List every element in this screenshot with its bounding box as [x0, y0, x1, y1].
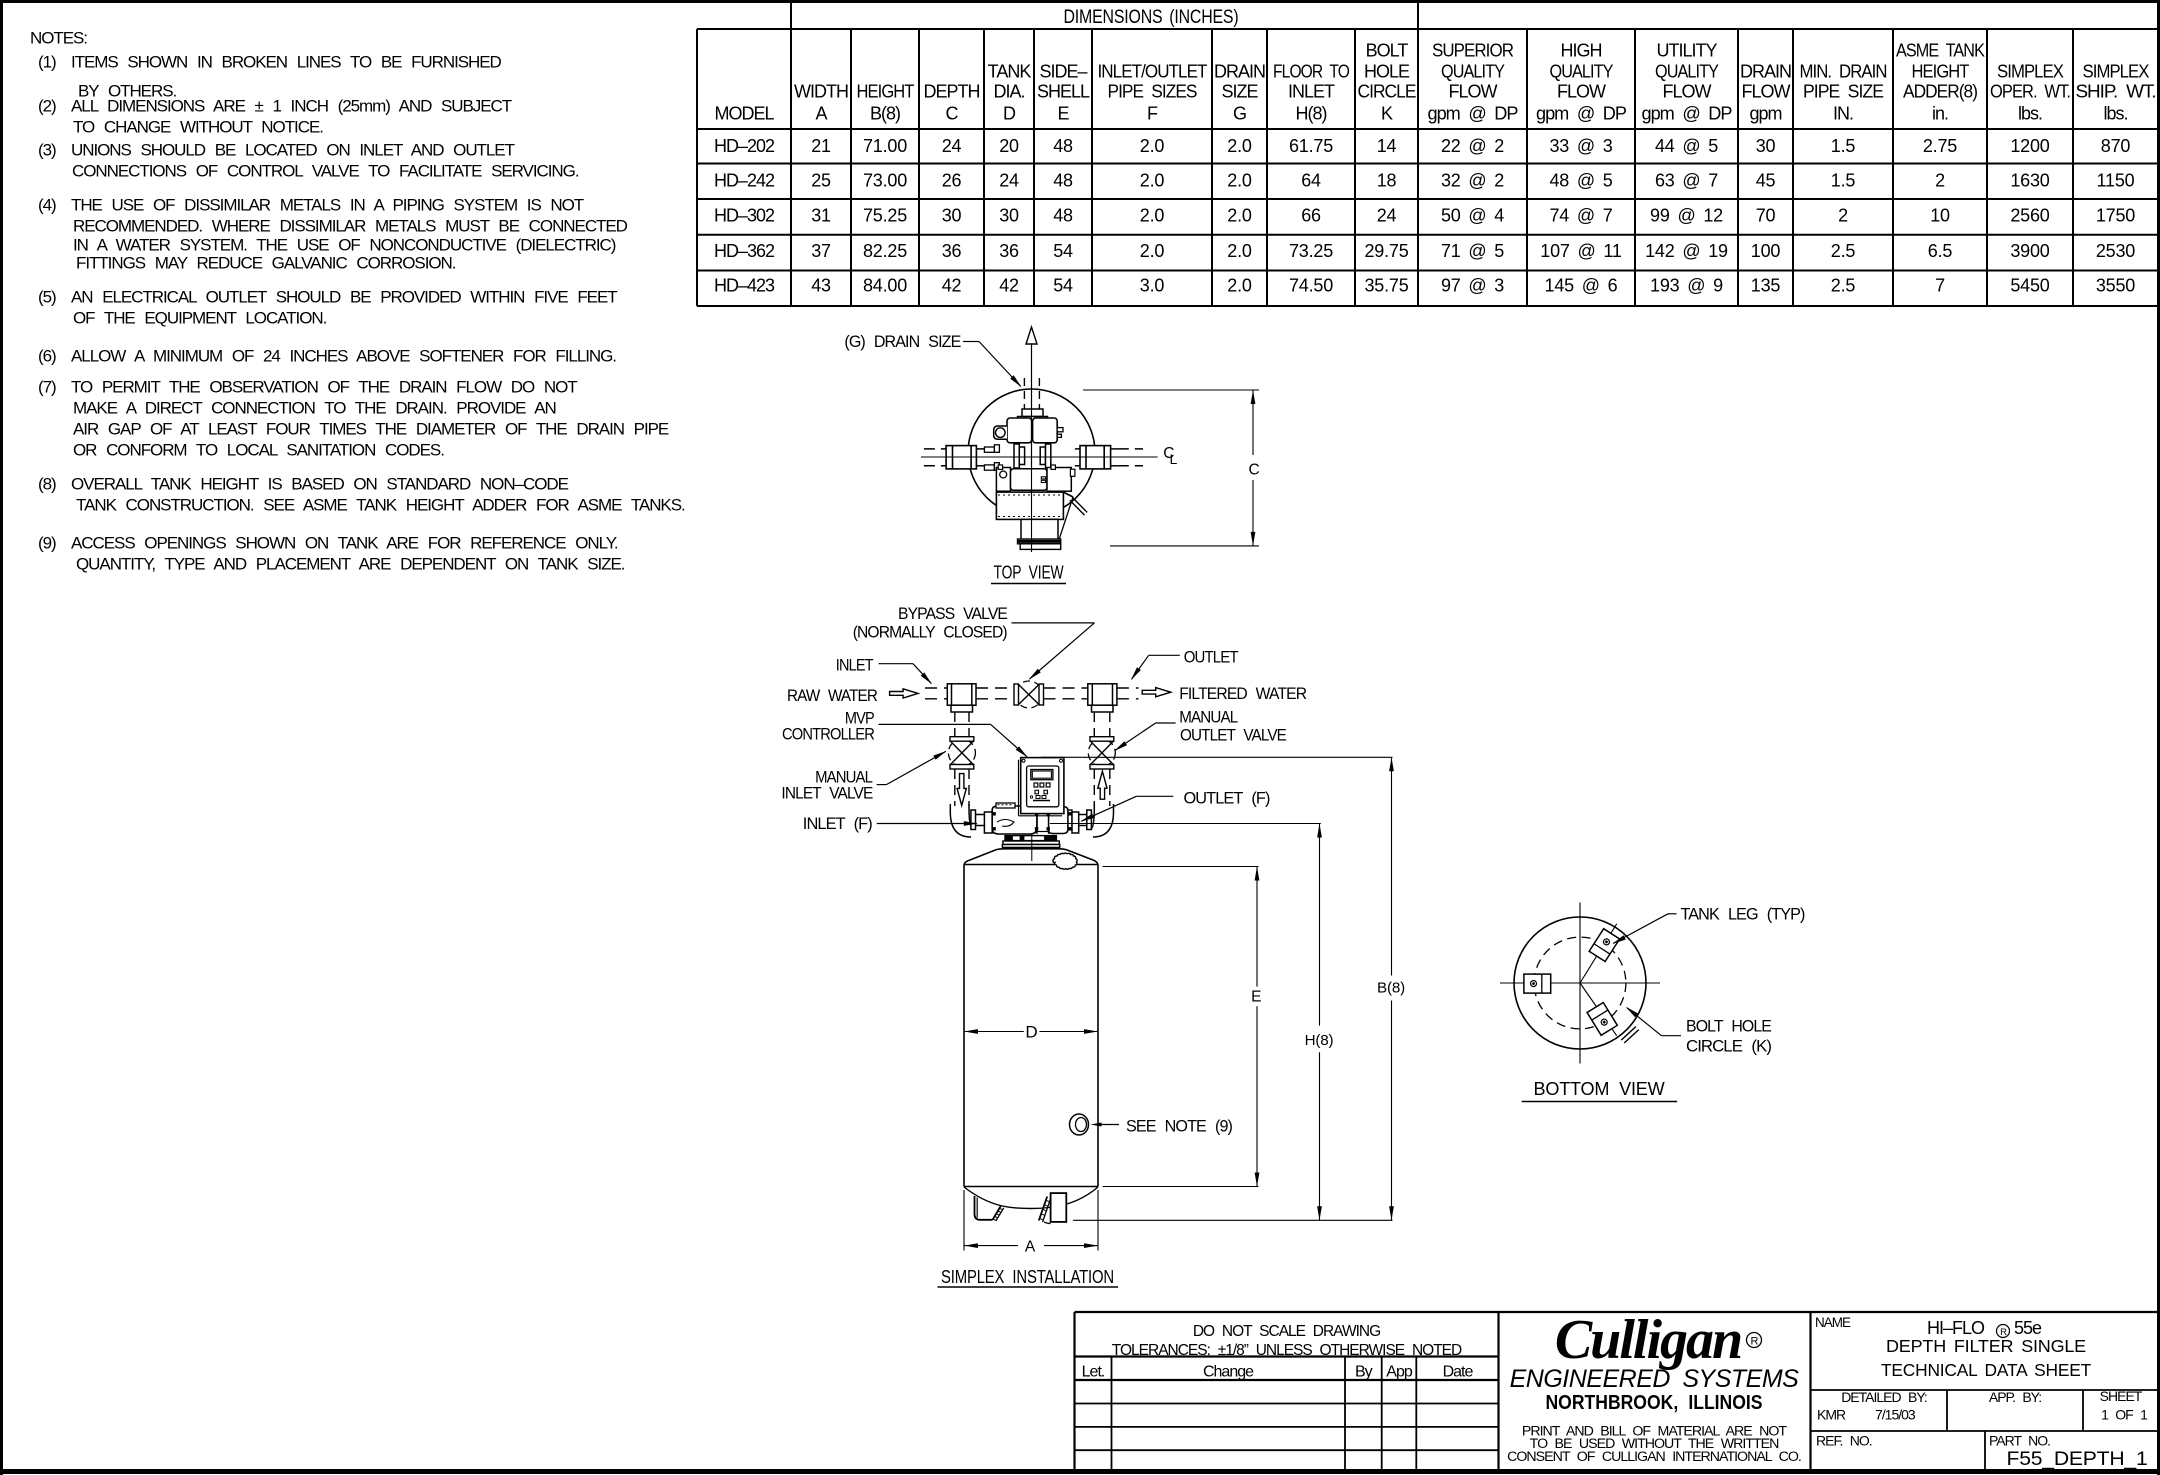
svg-text:QUALITY: QUALITY — [1550, 62, 1614, 82]
svg-text:24: 24 — [999, 170, 1019, 190]
svg-text:30: 30 — [942, 205, 962, 225]
svg-text:HD–302: HD–302 — [714, 205, 775, 225]
svg-text:OF THE EQUIPMENT LOCATION.: OF THE EQUIPMENT LOCATION. — [73, 309, 327, 328]
svg-text:INLET (F): INLET (F) — [803, 815, 873, 833]
top view: right tabs — [1057, 428, 1063, 432]
svg-text:1.5: 1.5 — [1831, 170, 1856, 190]
svg-text:AIR GAP OF AT LEAST FOUR TIMES: AIR GAP OF AT LEAST FOUR TIMES THE DIAME… — [73, 420, 669, 439]
svg-text:gpm @ DP: gpm @ DP — [1428, 104, 1519, 124]
svg-text:(2): (2) — [38, 97, 56, 116]
svg-text:3.0: 3.0 — [1140, 276, 1165, 296]
svg-text:OUTLET VALVE: OUTLET VALVE — [1180, 726, 1287, 744]
svg-text:2.0: 2.0 — [1140, 136, 1165, 156]
svg-text:74.50: 74.50 — [1289, 276, 1333, 296]
svg-text:14: 14 — [1377, 136, 1397, 156]
svg-text:97 @ 3: 97 @ 3 — [1441, 276, 1504, 296]
top view: horizontal pipe dashed (by others) — [924, 448, 946, 450]
svg-text:30: 30 — [1756, 136, 1776, 156]
svg-text:OVERALL TANK HEIGHT IS BASED O: OVERALL TANK HEIGHT IS BASED ON STANDARD… — [71, 475, 569, 494]
svg-text:PART NO.: PART NO. — [1989, 1433, 2050, 1449]
svg-text:31: 31 — [811, 205, 831, 225]
svg-text:CONTROLLER: CONTROLLER — [782, 726, 874, 744]
svg-text:TECHNICAL DATA SHEET: TECHNICAL DATA SHEET — [1881, 1360, 2091, 1380]
svg-text:Let.: Let. — [1082, 1364, 1105, 1381]
svg-text:2.0: 2.0 — [1227, 276, 1252, 296]
manual outlet valve — [1088, 739, 1115, 766]
svg-text:74 @ 7: 74 @ 7 — [1549, 205, 1612, 225]
svg-text:145 @ 6: 145 @ 6 — [1545, 276, 1618, 296]
tank dished bottom — [964, 1187, 1098, 1209]
svg-text:61.75: 61.75 — [1289, 136, 1333, 156]
svg-text:OUTLET: OUTLET — [1184, 648, 1239, 666]
svg-text:INLET/OUTLET: INLET/OUTLET — [1098, 62, 1208, 82]
svg-text:FLOOR TO: FLOOR TO — [1273, 62, 1350, 82]
bottom view: tank leg bottom — [1587, 1003, 1617, 1036]
svg-text:71.00: 71.00 — [863, 136, 907, 156]
svg-text:BOLT HOLE: BOLT HOLE — [1686, 1017, 1772, 1035]
svg-text:NORTHBROOK, ILLINOIS: NORTHBROOK, ILLINOIS — [1546, 1392, 1763, 1414]
svg-text:OUTLET (F): OUTLET (F) — [1184, 790, 1271, 808]
svg-text:MODEL: MODEL — [714, 104, 774, 124]
svg-text:D: D — [1025, 1023, 1037, 1042]
svg-text:2.0: 2.0 — [1140, 241, 1165, 261]
svg-text:F55_DEPTH_1: F55_DEPTH_1 — [2007, 1449, 2148, 1470]
svg-text:H(8): H(8) — [1296, 104, 1327, 124]
center tank leg — [1039, 1197, 1047, 1221]
left tee fitting — [947, 684, 976, 705]
svg-text:1.5: 1.5 — [1831, 136, 1856, 156]
top view: C dimension — [1083, 389, 1259, 391]
svg-text:Date: Date — [1443, 1364, 1474, 1381]
svg-text:OR CONFORM TO LOCAL SANITATION: OR CONFORM TO LOCAL SANITATION CODES. — [73, 441, 444, 460]
svg-text:FLOW: FLOW — [1742, 82, 1791, 102]
svg-text:DIA.: DIA. — [993, 82, 1024, 102]
svg-text:SUPERIOR: SUPERIOR — [1432, 41, 1514, 61]
svg-text:QUALITY: QUALITY — [1655, 62, 1719, 82]
top view: right union — [1080, 446, 1111, 469]
svg-text:ACCESS OPENINGS SHOWN ON TANK: ACCESS OPENINGS SHOWN ON TANK ARE FOR RE… — [71, 534, 618, 553]
svg-text:gpm: gpm — [1749, 104, 1781, 124]
bottom view: tank leg left — [1524, 974, 1551, 993]
svg-text:CONNECTIONS OF CONTROL VALVE T: CONNECTIONS OF CONTROL VALVE TO FACILITA… — [72, 162, 579, 181]
svg-text:ALL DIMENSIONS ARE ± 1 INCH (2: ALL DIMENSIONS ARE ± 1 INCH (25mm) AND S… — [71, 97, 512, 116]
svg-text:gpm @ DP: gpm @ DP — [1642, 104, 1733, 124]
svg-text:D: D — [1003, 104, 1016, 124]
svg-text:135: 135 — [1751, 276, 1781, 296]
svg-text:64: 64 — [1301, 170, 1321, 190]
svg-text:44 @ 5: 44 @ 5 — [1655, 136, 1718, 156]
svg-text:66: 66 — [1301, 205, 1321, 225]
dim H(8) — [1050, 823, 1321, 825]
svg-text:K: K — [1381, 104, 1393, 124]
right elbow — [1093, 804, 1114, 837]
svg-text:36: 36 — [942, 241, 962, 261]
dimensions table — [791, 1, 2158, 3]
svg-text:25: 25 — [811, 170, 831, 190]
top view: drain pipe dashed lines — [1023, 378, 1025, 409]
svg-text:By: By — [1355, 1364, 1373, 1381]
svg-text:TOP VIEW: TOP VIEW — [994, 563, 1064, 583]
svg-text:1200: 1200 — [2010, 136, 2049, 156]
svg-text:1750: 1750 — [2096, 205, 2135, 225]
svg-text:(8): (8) — [38, 475, 56, 494]
svg-text:29.75: 29.75 — [1364, 241, 1408, 261]
top view: valve inlet/outlet ticks — [984, 447, 994, 452]
top view: left ear with circle — [994, 426, 1007, 439]
svg-text:OPER. WT.: OPER. WT. — [1990, 82, 2070, 102]
svg-text:G: G — [1233, 104, 1246, 124]
svg-text:(3): (3) — [38, 141, 56, 160]
left tank leg — [975, 1196, 993, 1220]
top view: lower valve body — [996, 468, 1010, 492]
svg-text:2: 2 — [1935, 170, 1945, 190]
svg-text:REF. NO.: REF. NO. — [1816, 1433, 1872, 1449]
svg-text:MANUAL: MANUAL — [1179, 709, 1238, 727]
svg-text:42: 42 — [999, 276, 1019, 296]
top view: pipe crossing bars — [1014, 444, 1019, 468]
sheet border frame — [0, 0, 2160, 3]
svg-text:54: 54 — [1053, 241, 1073, 261]
svg-text:RECOMMENDED. WHERE DISSIMILAR: RECOMMENDED. WHERE DISSIMILAR METALS MUS… — [73, 217, 628, 236]
svg-text:SIZE: SIZE — [1221, 82, 1258, 102]
svg-text:MIN. DRAIN: MIN. DRAIN — [1800, 62, 1887, 82]
left vertical pipe dashed — [954, 712, 956, 737]
top view: left union — [946, 446, 976, 469]
svg-text:2.0: 2.0 — [1227, 136, 1252, 156]
top view: drain fitting stack — [1022, 409, 1043, 417]
svg-text:UNIONS SHOULD BE LOCATED ON IN: UNIONS SHOULD BE LOCATED ON INLET AND OU… — [71, 141, 515, 160]
svg-text:33 @ 3: 33 @ 3 — [1549, 136, 1612, 156]
dim E — [1103, 866, 1259, 868]
svg-text:SHEET: SHEET — [2100, 1388, 2143, 1404]
svg-text:FLOW: FLOW — [1449, 82, 1498, 102]
svg-text:FILTERED WATER: FILTERED WATER — [1179, 685, 1306, 703]
svg-text:TO CHANGE WITHOUT NOTICE.: TO CHANGE WITHOUT NOTICE. — [73, 118, 323, 137]
svg-text:RAW WATER: RAW WATER — [787, 687, 877, 705]
svg-text:(9): (9) — [38, 534, 56, 553]
svg-text:99 @ 12: 99 @ 12 — [1650, 205, 1723, 225]
svg-text:DIMENSIONS (INCHES): DIMENSIONS (INCHES) — [1064, 7, 1239, 28]
svg-text:(6): (6) — [38, 347, 56, 366]
svg-text:HEIGHT: HEIGHT — [1912, 62, 1970, 82]
svg-text:TANK LEG (TYP): TANK LEG (TYP) — [1681, 906, 1805, 924]
svg-text:55e: 55e — [2014, 1318, 2042, 1338]
svg-text:DETAILED BY:: DETAILED BY: — [1841, 1389, 1927, 1405]
svg-text:FLOW: FLOW — [1557, 82, 1606, 102]
valve mounting plates — [1005, 836, 1056, 841]
svg-text:F: F — [1147, 104, 1158, 124]
svg-text:(7): (7) — [38, 378, 56, 397]
svg-text:1 OF 1: 1 OF 1 — [2101, 1407, 2148, 1423]
top view: centerline overlays — [921, 456, 1158, 458]
svg-text:C: C — [1249, 462, 1260, 479]
dim D — [964, 1031, 1024, 1033]
svg-text:7: 7 — [1935, 276, 1945, 296]
revision table — [1075, 1355, 1499, 1357]
svg-text:36: 36 — [999, 241, 1019, 261]
svg-text:APP. BY:: APP. BY: — [1989, 1389, 2041, 1405]
svg-text:70: 70 — [1756, 205, 1776, 225]
svg-text:NOTES:: NOTES: — [30, 29, 87, 48]
svg-text:HD–362: HD–362 — [714, 241, 775, 261]
svg-text:IN A WATER SYSTEM. THE USE OF: IN A WATER SYSTEM. THE USE OF NONCONDUCT… — [73, 236, 616, 255]
top view: vertical centerline with open arrow (G drain) — [1031, 344, 1033, 552]
svg-text:48: 48 — [1053, 205, 1073, 225]
svg-text:R: R — [1751, 1336, 1759, 1348]
svg-text:QUANTITY, TYPE AND PLACEMENT A: QUANTITY, TYPE AND PLACEMENT ARE DEPENDE… — [76, 555, 625, 574]
top view: neck — [1021, 519, 1058, 539]
bottom view: crosshair centerlines — [1500, 982, 1660, 984]
svg-text:2530: 2530 — [2096, 241, 2135, 261]
svg-text:FITTINGS MAY REDUCE GALVANIC C: FITTINGS MAY REDUCE GALVANIC CORROSION. — [76, 254, 456, 273]
top view: wide base rect — [996, 492, 1063, 519]
svg-text:35.75: 35.75 — [1364, 276, 1408, 296]
svg-text:(4): (4) — [38, 196, 56, 215]
svg-text:107 @ 11: 107 @ 11 — [1540, 241, 1622, 261]
svg-text:B(8): B(8) — [1377, 980, 1405, 997]
svg-text:63 @ 7: 63 @ 7 — [1655, 170, 1718, 190]
svg-text:INLET: INLET — [1288, 82, 1335, 102]
svg-text:E: E — [1057, 104, 1069, 124]
see note 9 port — [1070, 1114, 1089, 1135]
svg-text:2.5: 2.5 — [1831, 241, 1856, 261]
svg-text:SHELL: SHELL — [1037, 82, 1090, 102]
bottom view: tank leg top-right — [1589, 929, 1619, 962]
svg-text:ADDER(8): ADDER(8) — [1903, 82, 1977, 102]
svg-text:ITEMS SHOWN IN BROKEN LINES TO: ITEMS SHOWN IN BROKEN LINES TO BE FURNIS… — [71, 53, 502, 72]
svg-text:HOLE: HOLE — [1364, 62, 1410, 82]
svg-text:193 @ 9: 193 @ 9 — [1650, 276, 1723, 296]
svg-text:NAME: NAME — [1815, 1315, 1851, 1330]
top view: bottom flange (dark band) — [1018, 539, 1061, 544]
title block outline — [1075, 1311, 2159, 1313]
svg-text:App: App — [1386, 1364, 1413, 1381]
svg-text:PIPE SIZES: PIPE SIZES — [1108, 82, 1198, 102]
svg-text:43: 43 — [811, 276, 831, 296]
svg-text:WIDTH: WIDTH — [794, 82, 848, 102]
svg-text:INLET VALVE: INLET VALVE — [781, 785, 873, 803]
svg-text:50 @ 4: 50 @ 4 — [1441, 205, 1504, 225]
svg-text:1630: 1630 — [2010, 170, 2049, 190]
svg-text:142 @ 19: 142 @ 19 — [1645, 241, 1728, 261]
svg-text:HEIGHT: HEIGHT — [857, 82, 915, 102]
svg-text:84.00: 84.00 — [863, 276, 907, 296]
svg-text:DRAIN: DRAIN — [1214, 62, 1265, 82]
right vertical pipe dashed — [1093, 712, 1095, 737]
svg-text:2.0: 2.0 — [1227, 241, 1252, 261]
svg-text:32 @ 2: 32 @ 2 — [1441, 170, 1504, 190]
svg-text:48: 48 — [1053, 170, 1073, 190]
svg-text:UTILITY: UTILITY — [1656, 41, 1717, 61]
svg-text:2.0: 2.0 — [1140, 170, 1165, 190]
svg-text:2560: 2560 — [2010, 205, 2049, 225]
svg-text:CIRCLE: CIRCLE — [1358, 82, 1417, 102]
bottom view: outer circle — [1514, 917, 1646, 1049]
raw water header pipe dashed — [925, 687, 947, 689]
svg-text:HD–242: HD–242 — [714, 170, 775, 190]
svg-text:TANK CONSTRUCTION. SEE ASME TA: TANK CONSTRUCTION. SEE ASME TANK HEIGHT … — [76, 496, 685, 515]
svg-text:30: 30 — [999, 205, 1019, 225]
svg-text:37: 37 — [811, 241, 831, 261]
svg-text:7/15/03: 7/15/03 — [1875, 1407, 1916, 1423]
flow arrow down (left pipe) — [957, 774, 966, 806]
svg-text:SHIP. WT.: SHIP. WT. — [2076, 82, 2156, 102]
svg-text:CONSENT OF CULLIGAN INTERNATIO: CONSENT OF CULLIGAN INTERNATIONAL CO. — [1507, 1449, 1801, 1465]
svg-text:22 @ 2: 22 @ 2 — [1441, 136, 1504, 156]
svg-text:A: A — [1025, 1239, 1036, 1256]
svg-text:54: 54 — [1053, 276, 1073, 296]
svg-text:24: 24 — [942, 136, 962, 156]
svg-text:DO NOT SCALE DRAWING: DO NOT SCALE DRAWING — [1193, 1323, 1380, 1340]
svg-text:SEE NOTE (9): SEE NOTE (9) — [1126, 1118, 1232, 1136]
svg-text:42: 42 — [942, 276, 962, 296]
svg-text:gpm @ DP: gpm @ DP — [1536, 104, 1627, 124]
svg-text:KMR: KMR — [1817, 1407, 1846, 1423]
svg-text:MAKE A DIRECT CONNECTION TO TH: MAKE A DIRECT CONNECTION TO THE DRAIN. P… — [73, 399, 556, 418]
svg-text:75.25: 75.25 — [863, 205, 907, 225]
svg-text:82.25: 82.25 — [863, 241, 907, 261]
svg-text:6.5: 6.5 — [1928, 241, 1953, 261]
svg-text:ENGINEERED SYSTEMS: ENGINEERED SYSTEMS — [1510, 1365, 1800, 1393]
svg-text:2.0: 2.0 — [1227, 170, 1252, 190]
top view: valve top blocks — [1007, 418, 1032, 443]
dome access cover (cloud) — [1053, 853, 1077, 869]
tank shell — [963, 865, 965, 1187]
svg-text:lbs.: lbs. — [2018, 104, 2042, 124]
bottom view: bolt hole circle dashed — [1534, 937, 1626, 1029]
bottom view: radial leg lines — [1580, 924, 1617, 983]
svg-text:CIRCLE (K): CIRCLE (K) — [1686, 1038, 1772, 1056]
svg-text:ASME TANK: ASME TANK — [1896, 41, 1985, 61]
svg-text:71 @ 5: 71 @ 5 — [1441, 241, 1504, 261]
svg-text:(5): (5) — [38, 288, 56, 307]
svg-text:10: 10 — [1930, 205, 1950, 225]
svg-text:100: 100 — [1751, 241, 1781, 261]
svg-text:ALLOW A MINIMUM OF 24 INCHES A: ALLOW A MINIMUM OF 24 INCHES ABOVE SOFTE… — [71, 347, 616, 366]
svg-text:(1): (1) — [38, 53, 56, 72]
svg-text:L: L — [1170, 451, 1178, 467]
svg-text:2.0: 2.0 — [1227, 205, 1252, 225]
svg-text:Culligan: Culligan — [1555, 1309, 1741, 1371]
svg-text:BOTTOM VIEW: BOTTOM VIEW — [1534, 1079, 1665, 1099]
svg-text:DRAIN: DRAIN — [1740, 62, 1791, 82]
svg-text:FLOW: FLOW — [1663, 82, 1712, 102]
svg-text:DEPTH: DEPTH — [923, 82, 979, 102]
svg-text:HIGH: HIGH — [1561, 41, 1602, 61]
svg-text:1150: 1150 — [2097, 170, 2135, 190]
tank dome — [964, 849, 1098, 865]
svg-text:48 @ 5: 48 @ 5 — [1549, 170, 1612, 190]
valve-tank centerline — [1031, 834, 1033, 861]
svg-text:73.00: 73.00 — [863, 170, 907, 190]
top view: tank circle — [968, 389, 1095, 516]
svg-text:E: E — [1251, 989, 1261, 1006]
svg-text:SIMPLEX: SIMPLEX — [2083, 62, 2150, 82]
svg-text:2.5: 2.5 — [1831, 276, 1856, 296]
svg-text:H(8): H(8) — [1305, 1032, 1334, 1049]
svg-text:INLET: INLET — [836, 657, 874, 675]
svg-text:2.75: 2.75 — [1923, 136, 1957, 156]
dim B(8) — [1041, 756, 1393, 758]
svg-text:18: 18 — [1377, 170, 1397, 190]
svg-text:3550: 3550 — [2096, 276, 2135, 296]
svg-text:BYPASS VALVE: BYPASS VALVE — [898, 605, 1008, 623]
svg-text:Change: Change — [1203, 1364, 1254, 1381]
flow arrow up (right pipe) — [1098, 771, 1107, 799]
svg-text:3900: 3900 — [2010, 241, 2049, 261]
svg-text:73.25: 73.25 — [1289, 241, 1333, 261]
svg-text:24: 24 — [1377, 205, 1397, 225]
right tee fitting — [1088, 684, 1117, 705]
svg-text:BOLT: BOLT — [1366, 41, 1409, 61]
svg-text:SIDE–: SIDE– — [1039, 62, 1087, 82]
dim A — [963, 1190, 965, 1251]
bottom view: chamfer tick — [1621, 1027, 1636, 1040]
MVP controller box — [1021, 758, 1064, 814]
svg-text:TOLERANCES: ±1/8” UNLESS OTHER: TOLERANCES: ±1/8” UNLESS OTHERWISE NOTED — [1112, 1342, 1462, 1359]
svg-text:870: 870 — [2101, 136, 2131, 156]
svg-text:TO PERMIT THE OBSERVATION OF T: TO PERMIT THE OBSERVATION OF THE DRAIN F… — [71, 378, 577, 397]
svg-text:48: 48 — [1053, 136, 1073, 156]
svg-text:HD–423: HD–423 — [714, 276, 775, 296]
svg-text:TANK: TANK — [988, 62, 1032, 82]
svg-text:lbs.: lbs. — [2103, 104, 2127, 124]
svg-text:THE USE OF DISSIMILAR METALS I: THE USE OF DISSIMILAR METALS IN A PIPING… — [71, 196, 584, 215]
svg-text:IN.: IN. — [1833, 104, 1853, 124]
svg-text:SIMPLEX INSTALLATION: SIMPLEX INSTALLATION — [941, 1267, 1114, 1287]
svg-text:A: A — [815, 104, 827, 124]
svg-text:AN ELECTRICAL OUTLET SHOULD BE: AN ELECTRICAL OUTLET SHOULD BE PROVIDED … — [71, 288, 617, 307]
svg-text:HI–FLO: HI–FLO — [1927, 1318, 1985, 1338]
svg-text:C: C — [946, 104, 959, 124]
bypass valve (normally closed) — [1015, 681, 1042, 708]
top view: horizontal centerline — [921, 456, 1158, 458]
svg-text:QUALITY: QUALITY — [1441, 62, 1505, 82]
svg-text:DEPTH FILTER SINGLE: DEPTH FILTER SINGLE — [1886, 1336, 2086, 1356]
tank neck flange — [1003, 841, 1059, 845]
floor extension line — [1073, 1219, 1392, 1221]
svg-text:SIMPLEX: SIMPLEX — [1997, 62, 2064, 82]
svg-text:(G) DRAIN SIZE: (G) DRAIN SIZE — [844, 333, 961, 351]
top view: chamfer mark — [1073, 498, 1088, 513]
svg-text:(NORMALLY CLOSED): (NORMALLY CLOSED) — [853, 624, 1007, 642]
control valve body — [984, 812, 992, 833]
svg-text:26: 26 — [942, 170, 962, 190]
svg-text:21: 21 — [811, 136, 831, 156]
svg-text:B(8): B(8) — [870, 104, 900, 124]
svg-text:2.0: 2.0 — [1140, 205, 1165, 225]
svg-text:in.: in. — [1932, 104, 1948, 124]
manual inlet valve — [948, 739, 975, 766]
svg-text:PIPE SIZE: PIPE SIZE — [1803, 82, 1884, 102]
svg-text:20: 20 — [999, 136, 1019, 156]
svg-text:5450: 5450 — [2010, 276, 2049, 296]
left elbow — [950, 804, 971, 837]
svg-text:HD–202: HD–202 — [714, 136, 775, 156]
svg-text:2: 2 — [1838, 205, 1848, 225]
svg-text:45: 45 — [1756, 170, 1776, 190]
